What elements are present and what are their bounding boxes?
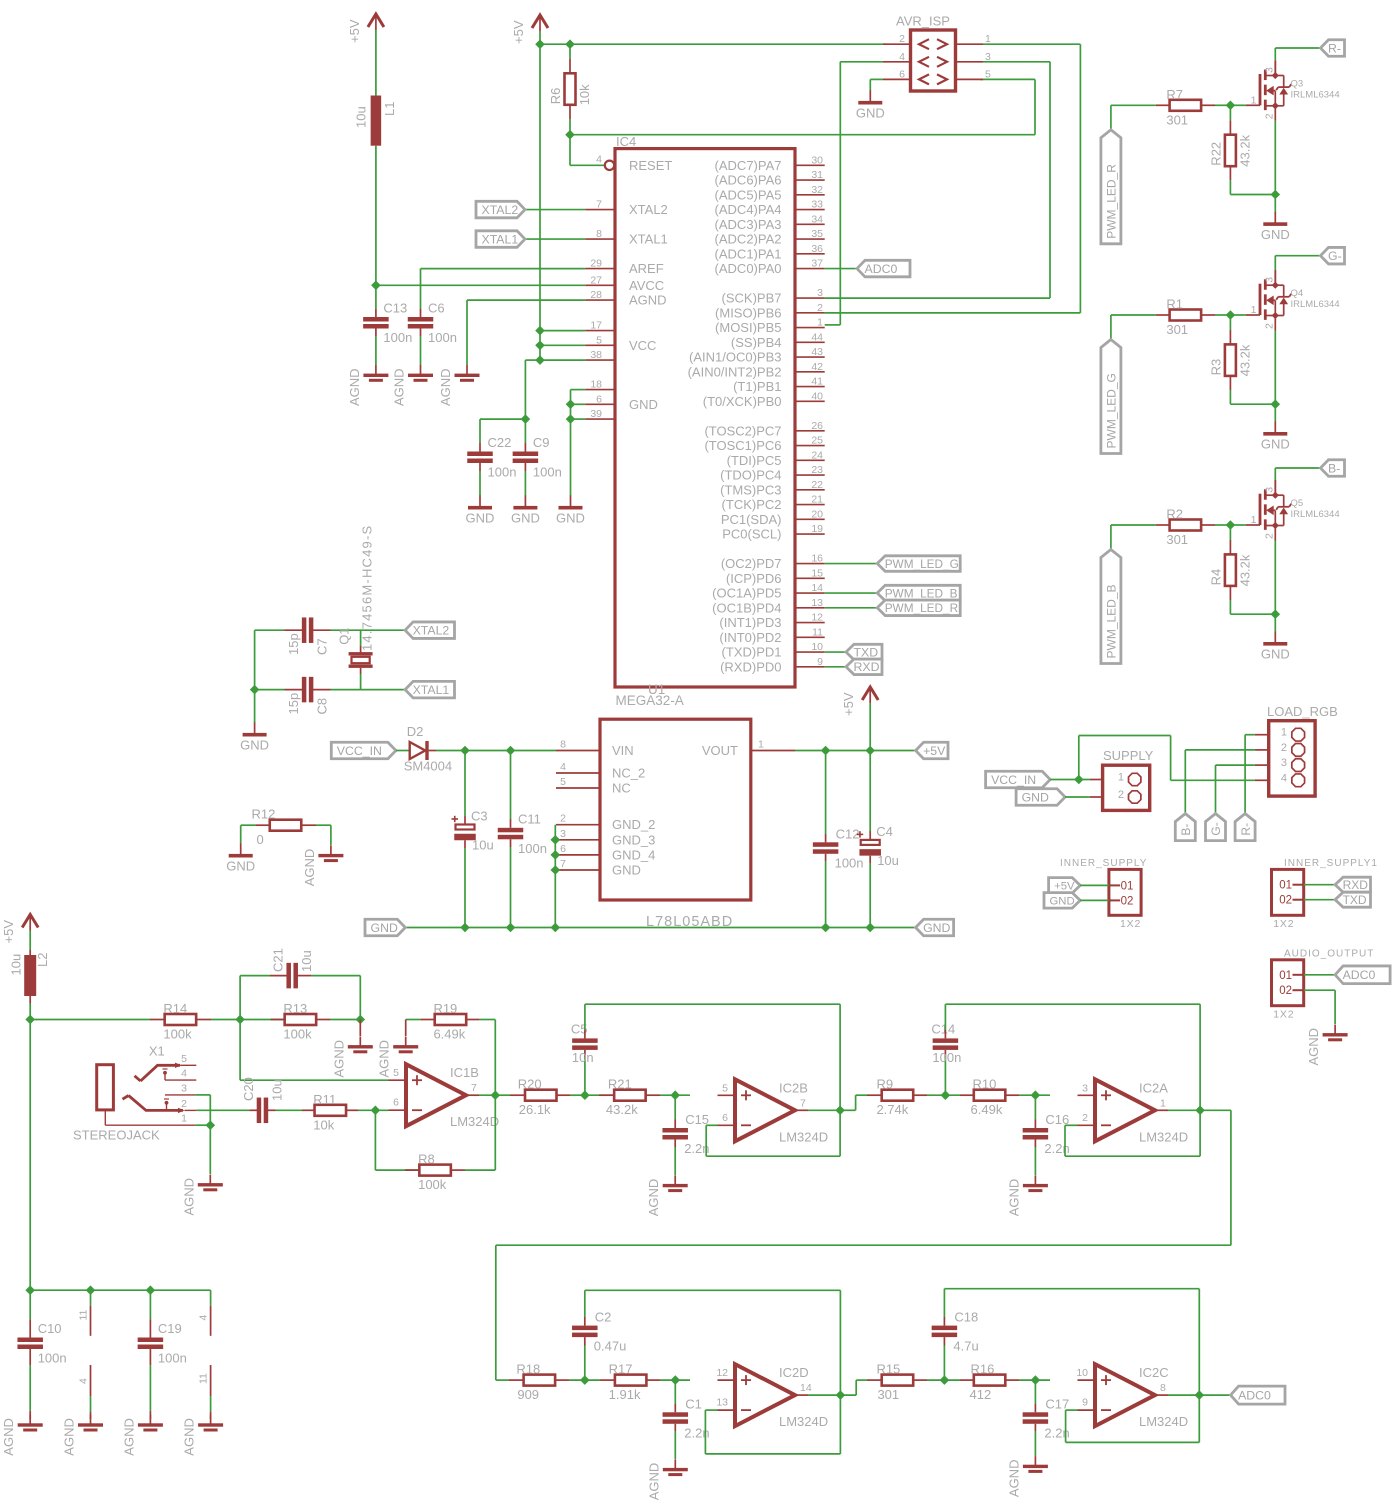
- wire drain to B-: [1274, 468, 1276, 480]
- pin 6 (6): [585, 393, 615, 405]
- wire to AGND: [359, 1020, 361, 1037]
- svg-text:AGND: AGND: [331, 1040, 346, 1078]
- svg-text:15p: 15p: [286, 693, 301, 715]
- resistor R10: [971, 1077, 1006, 1118]
- svg-text:INNER_SUPPLY1: INNER_SUPPLY1: [1284, 858, 1378, 869]
- svg-text:+5V: +5V: [511, 20, 526, 44]
- svg-text:412: 412: [970, 1387, 992, 1402]
- net label GND: [365, 919, 405, 936]
- svg-text:R8: R8: [418, 1152, 435, 1167]
- pin RESET (4): [596, 153, 672, 173]
- svg-text:R13: R13: [283, 1001, 307, 1016]
- svg-text:XTAL2: XTAL2: [482, 203, 519, 217]
- capacitor C3 (polarized): [452, 809, 494, 853]
- resistor R15: [876, 1362, 913, 1403]
- svg-text:3: 3: [1082, 1082, 1088, 1094]
- node C2: [580, 1375, 590, 1385]
- wire +5V: [539, 31, 541, 44]
- svg-text:NC_2: NC_2: [612, 766, 645, 781]
- pin (AIN0/INT2)PB2 (42): [688, 361, 825, 380]
- svg-text:GND: GND: [1261, 227, 1290, 242]
- wire R19 right: [467, 1019, 480, 1021]
- inductor L1: [354, 96, 398, 146]
- net label TXD: [846, 644, 882, 660]
- svg-text:11: 11: [198, 1373, 210, 1384]
- svg-text:1.91k: 1.91k: [609, 1387, 641, 1402]
- node VCC pin5: [535, 341, 545, 351]
- resistor R16: [970, 1362, 1006, 1403]
- svg-text:4: 4: [560, 761, 566, 773]
- pin (MOSI)PB5 (1): [715, 317, 825, 336]
- wire drain to G-: [1274, 256, 1276, 270]
- wire RESET net: [570, 134, 1035, 136]
- svg-text:27: 27: [590, 274, 602, 286]
- svg-text:C2: C2: [595, 1310, 612, 1325]
- wire C21 right: [311, 975, 360, 977]
- resistor R3 leads: [1229, 315, 1231, 330]
- svg-text:02: 02: [1279, 895, 1292, 907]
- wire GND to supply pin2: [1065, 796, 1090, 798]
- svg-text:AVR_ISP: AVR_ISP: [896, 14, 950, 29]
- pin XTAL2 (7): [585, 199, 668, 218]
- svg-text:VCC_IN: VCC_IN: [337, 744, 382, 758]
- svg-text:AGND: AGND: [302, 849, 317, 887]
- svg-text:AUDIO_OUTPUT: AUDIO_OUTPUT: [1284, 949, 1374, 960]
- svg-text:13: 13: [716, 1397, 728, 1409]
- svg-text:R15: R15: [876, 1362, 900, 1377]
- node +in IC2A: [1031, 1090, 1041, 1100]
- svg-text:3: 3: [1264, 277, 1276, 283]
- node GND pin7: [551, 865, 561, 875]
- svg-text:AGND: AGND: [62, 1418, 77, 1456]
- svg-text:2: 2: [817, 302, 823, 314]
- wire R17 right: [660, 1379, 690, 1381]
- svg-text:GND: GND: [923, 921, 950, 935]
- svg-text:PWM_LED_G: PWM_LED_G: [885, 557, 959, 571]
- svg-text:100n: 100n: [38, 1351, 67, 1366]
- ground GND: [1261, 422, 1290, 452]
- ground AGND: [182, 1415, 224, 1456]
- pin 4 stub (IC1 supply): [78, 1365, 91, 1419]
- svg-text:1: 1: [817, 317, 823, 329]
- svg-text:IC2A: IC2A: [1139, 1080, 1168, 1095]
- wire C12: [825, 751, 827, 835]
- svg-text:100n: 100n: [932, 1050, 961, 1065]
- svg-text:(TCK)PC2: (TCK)PC2: [722, 497, 782, 512]
- svg-text:(ADC6)PA6: (ADC6)PA6: [715, 173, 782, 188]
- ground AGND: [1306, 1025, 1348, 1066]
- wire C3 bottom: [464, 840, 466, 848]
- wire audio out gnd: [1304, 989, 1335, 991]
- resistor R6: [548, 73, 592, 105]
- svg-text:C13: C13: [383, 301, 407, 316]
- svg-text:XTAL1: XTAL1: [482, 232, 519, 246]
- ground AGND: [181, 1175, 223, 1216]
- svg-text:7: 7: [560, 858, 566, 870]
- wire C18 top: [943, 1317, 945, 1326]
- svg-text:5: 5: [181, 1053, 187, 1065]
- svg-text:24: 24: [811, 449, 823, 461]
- wire out to R20: [495, 1094, 510, 1096]
- wire R12 right: [301, 824, 316, 826]
- node +in IC2D: [671, 1375, 681, 1385]
- svg-text:GND_2: GND_2: [612, 817, 655, 832]
- svg-text:40: 40: [811, 390, 823, 402]
- wire C9 top: [524, 419, 526, 443]
- node source: [1271, 609, 1281, 619]
- svg-text:1: 1: [1251, 304, 1257, 316]
- pin (AIN1/OC0)PB3 (43): [689, 346, 825, 365]
- capacitor C8 leads: [285, 689, 303, 691]
- net label B-: [1321, 460, 1345, 477]
- net label PWM_LED_B: [1101, 550, 1121, 664]
- pin (ADC6)PA6 (31): [715, 169, 825, 188]
- wire C20-R11: [276, 1109, 303, 1111]
- svg-text:GND: GND: [1050, 896, 1075, 908]
- svg-text:C7: C7: [315, 638, 330, 655]
- svg-text:GND: GND: [612, 863, 641, 878]
- net label PWM_LED_R: [1101, 130, 1121, 244]
- svg-text:VIN: VIN: [612, 743, 634, 758]
- svg-text:AGND: AGND: [1306, 1028, 1321, 1066]
- svg-text:+5V: +5V: [1, 920, 16, 944]
- svg-text:R2: R2: [1166, 507, 1183, 522]
- net label ADC0: [1231, 1386, 1285, 1404]
- svg-text:10u: 10u: [269, 1079, 284, 1101]
- pin (SS)PB4 (44): [731, 331, 825, 350]
- node out IC2A: [1195, 1106, 1205, 1116]
- svg-text:01: 01: [1121, 880, 1134, 892]
- net label GND: [1016, 789, 1065, 806]
- wire +5V rail top: [540, 43, 886, 45]
- resistor R14 leads: [150, 1019, 164, 1021]
- resistor R10 leads: [960, 1094, 974, 1096]
- net label R-: [1321, 40, 1345, 57]
- IC U1 MEGA32-A outline: [615, 134, 795, 708]
- wire C16 gnd: [1034, 1140, 1036, 1148]
- svg-text:9: 9: [817, 656, 823, 668]
- pin 11 stub (IC2 supply): [198, 1365, 211, 1419]
- node jack gnd: [206, 1120, 216, 1130]
- ground GND: [1261, 632, 1290, 662]
- node -in IC1B: [371, 1106, 381, 1116]
- svg-text:37: 37: [811, 258, 823, 270]
- node gate: [1226, 101, 1236, 111]
- svg-text:01: 01: [1279, 880, 1292, 892]
- svg-text:43.2k: 43.2k: [1237, 554, 1252, 586]
- svg-text:6: 6: [393, 1097, 399, 1109]
- svg-text:AGND: AGND: [646, 1179, 661, 1217]
- svg-text:R11: R11: [313, 1092, 336, 1107]
- svg-text:R7: R7: [1166, 87, 1183, 102]
- wire C12 bottom: [825, 854, 827, 861]
- wire C9 to GND: [524, 463, 526, 471]
- svg-text:C8: C8: [315, 698, 330, 715]
- wire L2 down: [29, 1004, 31, 1020]
- node out IC2C: [1195, 1390, 1205, 1400]
- wire GND: [1080, 899, 1109, 901]
- svg-text:1: 1: [1118, 772, 1124, 784]
- capacitor C8: [286, 677, 330, 715]
- ground GND: [511, 496, 540, 526]
- svg-text:0.47u: 0.47u: [594, 1339, 627, 1354]
- wire VCC to decoupling: [525, 359, 540, 361]
- svg-text:C1: C1: [685, 1396, 702, 1411]
- ground AGND: [331, 1037, 373, 1078]
- wire source to pulldown: [1230, 403, 1275, 405]
- svg-text:(OC1B)PD4: (OC1B)PD4: [712, 600, 781, 615]
- resistor R21: [606, 1077, 646, 1118]
- svg-text:301: 301: [1166, 112, 1188, 127]
- svg-text:4: 4: [596, 153, 602, 165]
- svg-text:LM324D: LM324D: [1139, 1414, 1188, 1429]
- svg-text:10u: 10u: [472, 838, 494, 853]
- wire PWM_LED_R to gate resistor: [1111, 104, 1156, 106]
- wire R6 bottom lead: [569, 105, 571, 119]
- svg-text:IC1B: IC1B: [450, 1065, 479, 1080]
- svg-text:(SS)PB4: (SS)PB4: [731, 335, 782, 350]
- svg-text:R21: R21: [608, 1077, 632, 1092]
- inductor L2: [9, 950, 51, 1004]
- resistor R9 leads: [867, 1094, 882, 1096]
- svg-text:6: 6: [596, 393, 602, 405]
- connector SUPPLY: [1090, 748, 1154, 810]
- node AVCC: [371, 281, 381, 291]
- svg-text:(SCK)PB7: (SCK)PB7: [722, 291, 782, 306]
- connector INNER_SUPPLY1: [1272, 858, 1378, 930]
- svg-text:AGND: AGND: [181, 1178, 196, 1216]
- svg-text:14: 14: [800, 1382, 812, 1394]
- svg-text:R14: R14: [163, 1001, 187, 1016]
- svg-text:PWM_LED_B: PWM_LED_B: [885, 586, 958, 600]
- resistor R2 leads: [1156, 524, 1170, 526]
- wire R11 to -in: [358, 1109, 389, 1111]
- label Q5 IRLML6344: [1291, 498, 1340, 520]
- svg-text:17: 17: [590, 320, 602, 332]
- crystal Q1: [337, 525, 375, 690]
- svg-text:Q3: Q3: [1291, 78, 1304, 89]
- pin (TCK)PC2 (21): [722, 494, 825, 513]
- net label G-: [1206, 814, 1226, 841]
- svg-text:100n: 100n: [383, 330, 412, 345]
- net label PWM_LED_B: [877, 585, 960, 601]
- resistor R4 leads: [1229, 525, 1231, 540]
- svg-text:C12: C12: [836, 826, 860, 841]
- ground GND: [466, 496, 495, 526]
- svg-text:0: 0: [257, 832, 264, 847]
- ground AGND: [438, 365, 480, 406]
- svg-text:(ADC3)PA3: (ADC3)PA3: [715, 217, 782, 232]
- resistor R4: [1208, 554, 1252, 586]
- resistor R12: [252, 807, 302, 848]
- svg-text:XTAL2: XTAL2: [629, 202, 668, 217]
- svg-text:23: 23: [811, 464, 823, 476]
- wire R6 top lead: [569, 44, 571, 59]
- svg-text:(ADC4)PA4: (ADC4)PA4: [715, 202, 782, 217]
- svg-text:ADC0: ADC0: [865, 262, 898, 276]
- capacitor C9: [513, 435, 562, 480]
- resistor R16 leads: [960, 1379, 974, 1381]
- net label ADC0: [1335, 966, 1390, 984]
- svg-text:5: 5: [393, 1067, 399, 1079]
- svg-text:6.49k: 6.49k: [971, 1102, 1003, 1117]
- svg-text:11: 11: [812, 626, 823, 638]
- ground AGND: [377, 1037, 419, 1078]
- wire C22 to GND: [479, 463, 481, 471]
- svg-text:20: 20: [811, 508, 823, 520]
- capacitor C19: [138, 1321, 187, 1366]
- wire drain to R-: [1274, 48, 1276, 60]
- wire gate node: [1215, 524, 1230, 526]
- wire C17 gnd: [1034, 1424, 1036, 1431]
- wire XTAL1: [525, 238, 585, 240]
- svg-text:INNER_SUPPLY: INNER_SUPPLY: [1060, 858, 1147, 869]
- wire ISP pin6 to GND: [870, 78, 883, 80]
- svg-text:2: 2: [1264, 323, 1276, 329]
- wire source to pulldown: [1230, 194, 1275, 196]
- net label +5V: [1049, 878, 1081, 894]
- capacitor C11: [498, 811, 547, 856]
- node C22/C9: [521, 414, 531, 424]
- svg-text:C11: C11: [518, 811, 541, 826]
- wire VCC_IN to LOAD_RGB pin4: [1078, 736, 1080, 780]
- svg-text:R3: R3: [1208, 359, 1223, 376]
- svg-text:GND: GND: [226, 859, 255, 874]
- net label PWM_LED_R: [877, 600, 960, 616]
- svg-text:TXD: TXD: [854, 645, 879, 659]
- wire GND pin6: [571, 403, 586, 405]
- wire C19: [149, 1290, 151, 1319]
- wire VCC17: [540, 330, 585, 332]
- ground AGND: [1006, 1456, 1048, 1497]
- svg-text:4: 4: [198, 1315, 210, 1321]
- wire +5V: [1080, 884, 1109, 886]
- resistor R17: [609, 1362, 647, 1403]
- svg-text:GND: GND: [556, 511, 585, 526]
- pin (MISO)PB6 (2): [715, 302, 825, 321]
- capacitor C16: [1023, 1112, 1070, 1156]
- capacitor C1: [663, 1396, 710, 1440]
- svg-text:1X2: 1X2: [1273, 1009, 1294, 1021]
- svg-text:R4: R4: [1208, 569, 1223, 586]
- capacitor C18: [932, 1310, 979, 1354]
- svg-text:01: 01: [1279, 970, 1292, 982]
- node C14: [941, 1090, 951, 1100]
- node out IC2B: [835, 1106, 845, 1116]
- wire AGND pin: [467, 299, 585, 301]
- svg-text:AGND: AGND: [1, 1418, 16, 1456]
- wire SCK: [983, 61, 1050, 63]
- svg-text:33: 33: [811, 199, 823, 211]
- node +5V out: [865, 746, 875, 756]
- pin (T0/XCK)PB0 (40): [703, 390, 825, 409]
- wire +5V down to VCC pins: [539, 44, 541, 360]
- wire R19 left: [406, 1019, 421, 1021]
- svg-text:IC2C: IC2C: [1139, 1365, 1169, 1380]
- ground GND: [1261, 212, 1290, 242]
- svg-text:R6: R6: [548, 88, 563, 105]
- pin (T1)PB1 (41): [733, 376, 825, 395]
- svg-text:AGND: AGND: [1006, 1179, 1021, 1217]
- wire C2 top: [584, 1317, 586, 1326]
- pin (ADC3)PA3 (34): [715, 213, 825, 232]
- node audio rail: [25, 1015, 35, 1025]
- wire C10: [29, 1290, 31, 1319]
- node R20/R21/C5: [580, 1090, 590, 1100]
- ground AGND: [1006, 1175, 1048, 1216]
- svg-text:9: 9: [1082, 1397, 1088, 1409]
- wire out IC2D: [808, 1394, 840, 1396]
- ground AGND: [392, 365, 434, 406]
- wire PWM_LED_G (PD7): [825, 563, 878, 565]
- svg-text:AGND: AGND: [182, 1418, 197, 1456]
- net label XTAL2: [405, 622, 454, 639]
- pin (SCK)PB7 (3): [722, 287, 825, 306]
- net label GND: [1044, 893, 1080, 909]
- node GND6: [566, 400, 576, 410]
- svg-text:+5V: +5V: [347, 19, 362, 43]
- op-amp IC2B: [718, 1079, 829, 1144]
- svg-text:30: 30: [811, 154, 823, 166]
- svg-text:14: 14: [811, 582, 823, 594]
- wire XTAL2 net: [255, 629, 285, 631]
- net label XTAL1: [405, 681, 454, 698]
- svg-text:1: 1: [1281, 727, 1287, 739]
- net label VCC_IN: [986, 771, 1051, 788]
- wire PWM_LED_R (PD4): [825, 607, 878, 609]
- svg-text:ADC0: ADC0: [1238, 1388, 1271, 1402]
- connector INNER_SUPPLY: [1060, 858, 1147, 930]
- svg-text:8: 8: [596, 228, 602, 240]
- connector AUDIO_OUTPUT: [1272, 949, 1375, 1021]
- svg-text:(MISO)PB6: (MISO)PB6: [715, 305, 781, 320]
- wire bias down to +in: [239, 1020, 241, 1081]
- svg-text:43.2k: 43.2k: [1237, 344, 1252, 376]
- net label PWM_LED_G: [877, 556, 960, 572]
- resistor R21 leads: [585, 1094, 614, 1096]
- capacitor C20: [241, 1077, 285, 1123]
- resistor R2: [1166, 507, 1201, 548]
- wire pin2 to C20: [196, 1109, 249, 1111]
- svg-text:VCC_IN: VCC_IN: [991, 773, 1036, 787]
- svg-text:(TOSC2)PC7: (TOSC2)PC7: [704, 423, 781, 438]
- svg-text:35: 35: [811, 228, 823, 240]
- capacitor C13: [363, 301, 412, 346]
- capacitor C22: [467, 435, 516, 480]
- op-amp IC2D: [716, 1364, 828, 1429]
- pin 11 stub (IC1 supply): [78, 1290, 91, 1336]
- svg-text:13: 13: [811, 597, 823, 609]
- node GND_4: [551, 850, 561, 860]
- wire AREF: [421, 268, 586, 270]
- wire C5 branch: [584, 1058, 586, 1096]
- svg-text:GND: GND: [1261, 647, 1290, 662]
- pin (ADC2)PA2 (35): [715, 228, 825, 247]
- node gate: [1226, 520, 1236, 530]
- svg-text:4: 4: [899, 51, 905, 63]
- wire -in IC2C loop: [1066, 1409, 1078, 1411]
- svg-text:02: 02: [1279, 985, 1292, 997]
- svg-text:909: 909: [517, 1387, 539, 1402]
- svg-text:28: 28: [590, 289, 602, 301]
- svg-text:4.7u: 4.7u: [953, 1339, 978, 1354]
- wire VCC_IN to D2: [396, 750, 410, 752]
- svg-text:22: 22: [811, 479, 823, 491]
- svg-text:PC1(SDA): PC1(SDA): [721, 512, 782, 527]
- pin (ADC0)PA0 (37): [715, 258, 825, 277]
- node C18: [940, 1375, 950, 1385]
- resistor R8 leads: [405, 1169, 420, 1171]
